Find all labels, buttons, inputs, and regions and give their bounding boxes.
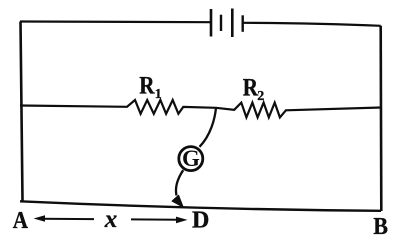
- svg-text:A: A: [13, 207, 29, 234]
- svg-text:2: 2: [257, 89, 264, 104]
- svg-text:G: G: [182, 146, 200, 171]
- svg-text:D: D: [192, 208, 209, 234]
- svg-text:1: 1: [155, 87, 162, 102]
- svg-text:B: B: [373, 213, 388, 240]
- svg-text:R: R: [243, 74, 258, 102]
- svg-text:x: x: [104, 206, 118, 233]
- svg-text:R: R: [139, 72, 154, 100]
